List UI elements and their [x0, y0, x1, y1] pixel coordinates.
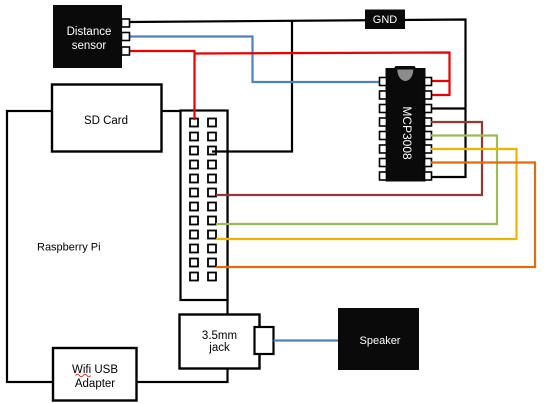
3.5mm jack: [180, 315, 260, 369]
wire blue (sensor pin2 to MCP3008 CH0): [129, 37, 380, 83]
sensor pin 2: [122, 33, 130, 41]
GPIO header: [181, 111, 228, 301]
svg-text:Speaker: Speaker: [360, 335, 401, 347]
MCP3008 notch rim: [395, 66, 416, 74]
SD Card: [52, 85, 162, 152]
wire red branch to GPIO header 3.3V pin: [193, 51, 195, 120]
svg-text:GND: GND: [373, 14, 398, 26]
wire red power net (sensor pin3 to junction): [129, 50, 196, 52]
MCP3008 notch: [397, 70, 413, 82]
MCP3008 pins left: [380, 78, 387, 181]
jack plug connector: [255, 327, 274, 354]
Speaker: [338, 308, 419, 370]
wire GND net (black, sensor pin1 to MCP3008 grounds): [129, 20, 466, 178]
svg-text:jack: jack: [208, 342, 230, 354]
GPIO pins left column: [190, 119, 198, 281]
wire speaker (blue): [274, 339, 339, 341]
GND label box: [365, 10, 405, 30]
wire orange (MCP3008 pin7 CS to GPIO): [216, 163, 535, 268]
wire red branch to MCP3008 pin1 right: [431, 80, 450, 82]
wire GND branch to MCP3008 pin3 right: [431, 107, 466, 109]
svg-text:sensor: sensor: [72, 40, 107, 52]
svg-text:Raspberry Pi: Raspberry Pi: [37, 242, 101, 254]
wire GND branch to GPIO header: [212, 20, 292, 152]
Distance sensor: [53, 5, 122, 68]
MCP3008 pins right: [425, 78, 432, 181]
svg-text:3.5mm: 3.5mm: [202, 330, 237, 342]
wire green (MCP3008 pin5 DOUT to GPIO): [216, 136, 497, 225]
wire yellow (MCP3008 pin6 DIN to GPIO): [216, 149, 517, 239]
svg-text:MCP3008: MCP3008: [400, 106, 414, 160]
svg-text:SD Card: SD Card: [84, 115, 128, 127]
svg-text:Distance: Distance: [67, 26, 112, 38]
svg-text:Wifi USB: Wifi USB: [72, 364, 118, 376]
spellcheck squiggle under Wifi: [76, 374, 91, 377]
Wifi USB Adapter: [53, 348, 137, 401]
GPIO pins right column: [208, 119, 216, 281]
wire dark red (MCP3008 pin4 CLK to GPIO): [216, 122, 482, 195]
sensor pin 1: [122, 19, 130, 27]
svg-text:Adapter: Adapter: [75, 378, 115, 390]
MCP3008 chip body: [386, 68, 426, 182]
sensor pin 3: [122, 47, 130, 55]
wire red power net (junction to MCP3008 VDD/VREF): [195, 53, 450, 96]
Raspberry Pi board: [7, 111, 228, 382]
